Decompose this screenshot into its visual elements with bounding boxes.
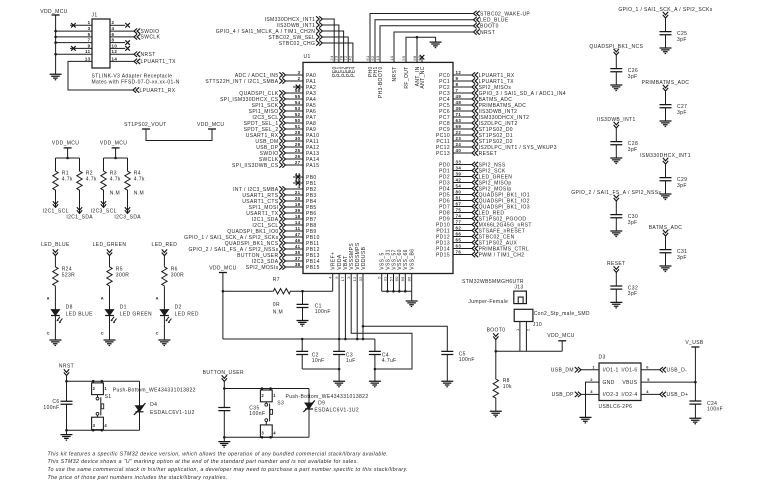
svg-text:3pF: 3pF xyxy=(677,255,687,261)
connector J10 Con2_Stp_male_SMD xyxy=(514,309,533,321)
svg-text:3pF: 3pF xyxy=(628,74,638,80)
resistor R7 0R N.M xyxy=(223,290,272,292)
svg-text:ANT_NC: ANT_NC xyxy=(420,66,426,88)
node LPUART1_RX xyxy=(133,87,139,92)
svg-text:RESET: RESET xyxy=(479,151,498,157)
wire R1 to I2C1_SCL xyxy=(55,191,57,207)
wire VDDSMPS down xyxy=(356,274,358,340)
svg-text:2: 2 xyxy=(298,76,301,81)
junction C4 bottom xyxy=(374,368,377,371)
ground (C32) xyxy=(610,302,622,308)
wire S3 bottom rail xyxy=(224,436,309,438)
capacitor C25 3pF xyxy=(660,32,672,35)
wire VDDUSB down xyxy=(362,274,364,340)
capacitor C6 100nF xyxy=(66,381,68,401)
svg-text:VDD_MCU: VDD_MCU xyxy=(52,140,79,146)
svg-text:J10: J10 xyxy=(533,322,542,328)
wire GPIO_4 / SAI1_MCLK_A / TIM1_CH2N to PE2 xyxy=(322,31,343,62)
svg-text:13: 13 xyxy=(85,56,91,61)
wire R5 to D1 xyxy=(109,287,111,310)
ground (J1 rail) xyxy=(50,74,62,80)
svg-text:NRST: NRST xyxy=(59,364,74,370)
svg-text:36: 36 xyxy=(456,106,462,111)
U1 pins PD0-PD15 xyxy=(436,159,532,258)
svg-text:PWM / TIM1_CH2: PWM / TIM1_CH2 xyxy=(479,252,525,258)
svg-text:1: 1 xyxy=(88,20,91,25)
svg-text:3pF: 3pF xyxy=(677,183,687,189)
node USB_D+ xyxy=(660,392,666,397)
svg-text:VSS_66: VSS_66 xyxy=(403,249,409,270)
junction VBUS xyxy=(694,381,697,384)
svg-text:86: 86 xyxy=(407,276,412,282)
svg-text:0R: 0R xyxy=(273,302,280,308)
capacitor C24 100nF xyxy=(689,401,701,404)
node I2C1_SDA xyxy=(77,207,82,213)
U1 pins PE0-PE4 xyxy=(329,55,357,77)
svg-text:ST1PS02_VOUT: ST1PS02_VOUT xyxy=(124,122,167,128)
node BOOT0 (top right) xyxy=(474,23,480,28)
svg-text:100nF: 100nF xyxy=(707,407,723,413)
ground (D8) xyxy=(49,340,61,346)
svg-text:3pF: 3pF xyxy=(677,110,687,116)
svg-text:7: 7 xyxy=(88,38,91,43)
node STBC02_WAKE-UP (top right) xyxy=(474,11,480,16)
wire J1 pin14 xyxy=(110,60,134,62)
svg-text:2: 2 xyxy=(112,20,115,25)
ground (S1) xyxy=(66,430,68,434)
svg-text:27: 27 xyxy=(295,160,301,165)
svg-text:J1: J1 xyxy=(92,13,98,19)
ground (D3) xyxy=(580,417,592,423)
junction C2 rail xyxy=(301,338,304,341)
svg-text:26: 26 xyxy=(295,154,301,159)
wire BUTTON_USER to rail xyxy=(223,381,225,388)
svg-text:4.7uF: 4.7uF xyxy=(382,358,397,364)
svg-text:100nF: 100nF xyxy=(459,357,475,363)
svg-text:100nF: 100nF xyxy=(43,405,59,411)
svg-text:6: 6 xyxy=(646,365,649,370)
svg-text:1: 1 xyxy=(515,328,520,331)
U1 pins PA0-PA15 xyxy=(205,70,319,169)
svg-text:39: 39 xyxy=(456,171,462,176)
svg-text:BUTTON_USER: BUTTON_USER xyxy=(203,370,244,376)
svg-text:PD15: PD15 xyxy=(436,252,450,258)
ground (S3) xyxy=(223,437,225,441)
svg-text:1: 1 xyxy=(104,386,107,391)
svg-text:GPIO_2 / SAI1_FS_A / SPI2_NSSs: GPIO_2 / SAI1_FS_A / SPI2_NSSs xyxy=(571,190,661,196)
svg-text:N.M: N.M xyxy=(110,190,120,196)
junction C1 xyxy=(301,290,304,293)
wire net tie ST1PS02_VOUT to VDD_MCU xyxy=(146,129,212,141)
svg-text:9: 9 xyxy=(334,276,339,279)
resistor R5 300R xyxy=(107,266,112,287)
wire STBC02_CHG to PE4 xyxy=(322,43,353,62)
ground (C25) xyxy=(660,48,672,54)
wire J1 pin4 xyxy=(110,30,134,32)
svg-text:11: 11 xyxy=(85,49,91,54)
svg-text:47: 47 xyxy=(295,232,301,237)
no-connect X J1 pin8 xyxy=(125,40,130,45)
svg-text:R8: R8 xyxy=(503,378,510,384)
svg-text:Push-Bottom_WE434331013822: Push-Bottom_WE434331013822 xyxy=(286,394,369,400)
svg-text:SPI2_MOSIs: SPI2_MOSIs xyxy=(246,265,279,271)
svg-text:VDD_MCU: VDD_MCU xyxy=(547,333,574,339)
svg-text:6: 6 xyxy=(112,32,115,37)
U1 pins PB0-PB15 xyxy=(184,172,320,271)
resistor R3 4.7k N.M xyxy=(101,170,106,191)
svg-text:I/O2-4: I/O2-4 xyxy=(621,392,637,398)
wire GPIO_1 / SAI1_SCK_A / SPI2_SCKs to C25 xyxy=(665,18,667,32)
svg-text:D1: D1 xyxy=(120,304,127,310)
svg-text:This kit features a specific S: This kit features a specific STM32 devic… xyxy=(48,451,389,457)
junction C3 bottom xyxy=(338,368,341,371)
junction VDDUSB to C5 branch xyxy=(362,325,365,328)
node NRST (J1) xyxy=(134,52,140,57)
svg-text:VREF+: VREF+ xyxy=(331,252,337,270)
svg-text:I2C3_SDA: I2C3_SDA xyxy=(114,214,141,220)
svg-text:SWCLK: SWCLK xyxy=(141,35,161,41)
svg-text:3pF: 3pF xyxy=(677,37,687,43)
junction BOOT0 R8 xyxy=(495,350,498,353)
wire USB_DP to D3 xyxy=(581,393,599,395)
ground (C24) xyxy=(689,418,701,424)
svg-text:Con2_Stp_male_SMD: Con2_Stp_male_SMD xyxy=(534,311,590,317)
capacitor C26 3pF xyxy=(610,69,622,72)
wire J1 pin8 stub xyxy=(110,42,125,44)
svg-text:D2: D2 xyxy=(175,304,182,310)
svg-text:81: 81 xyxy=(456,195,462,200)
svg-text:R5: R5 xyxy=(116,266,123,272)
svg-text:STTS22H_INT / I2C1_SMBA: STTS22H_INT / I2C1_SMBA xyxy=(205,79,278,85)
svg-text:9: 9 xyxy=(456,76,459,81)
footnote text xyxy=(48,451,408,481)
junction J1 pin3 xyxy=(54,30,57,33)
resistor R1 4.7k xyxy=(53,170,58,191)
ground (C27) xyxy=(660,121,672,127)
svg-text:I2C3_SCL: I2C3_SCL xyxy=(91,208,117,214)
svg-text:ISM330DHCX_INT1: ISM330DHCX_INT1 xyxy=(640,153,691,159)
svg-text:21: 21 xyxy=(295,190,301,195)
svg-text:62: 62 xyxy=(456,225,462,230)
svg-text:17: 17 xyxy=(340,276,345,282)
wire S1 top rail xyxy=(67,380,140,382)
wire V_USB down xyxy=(694,347,696,401)
svg-text:N.M: N.M xyxy=(134,190,144,196)
svg-text:S3: S3 xyxy=(277,401,284,407)
J1 pin numbers left xyxy=(85,20,91,61)
junction R7 rail xyxy=(222,290,225,293)
svg-text:PA15: PA15 xyxy=(306,163,319,169)
svg-text:C: C xyxy=(47,330,50,335)
junction VBAT rail xyxy=(344,338,347,341)
wire R6 to D2 xyxy=(163,287,165,310)
LED D8 LED BLUE xyxy=(51,310,60,316)
svg-text:1: 1 xyxy=(592,365,595,370)
ground (C30) xyxy=(610,231,622,237)
svg-text:71: 71 xyxy=(456,112,462,117)
svg-text:300R: 300R xyxy=(116,273,129,279)
node SWDIO xyxy=(134,28,140,33)
capacitor C3 1uF xyxy=(338,339,340,351)
svg-text:3: 3 xyxy=(346,276,351,279)
node SWCLK xyxy=(134,34,140,39)
svg-text:1uF: 1uF xyxy=(346,358,356,364)
ground (C4) xyxy=(369,381,381,387)
svg-text:I/O1-1: I/O1-1 xyxy=(603,368,619,374)
wire VDDA down xyxy=(338,274,340,340)
wire VDD_MCU to rail (J10) xyxy=(561,341,563,352)
ground (R8) xyxy=(490,411,502,417)
svg-text:LED_BLUE: LED_BLUE xyxy=(41,242,70,248)
ground (D1) xyxy=(104,340,116,346)
svg-text:100nF: 100nF xyxy=(249,411,265,417)
wire IIS3DWB_INT1 to PE1 xyxy=(322,25,339,62)
wire D2 to ground xyxy=(163,316,165,341)
svg-text:24: 24 xyxy=(456,142,462,147)
junction VDDA rail xyxy=(338,338,341,341)
no-connect X J1 pin2 xyxy=(125,23,130,28)
wire S1 bottom rail xyxy=(67,429,140,431)
wire D3 GND pin xyxy=(586,382,600,417)
svg-text:2: 2 xyxy=(261,393,264,398)
svg-text:13: 13 xyxy=(375,55,380,61)
svg-text:74: 74 xyxy=(456,213,462,218)
svg-text:10k: 10k xyxy=(503,384,512,390)
wire LED_BLUE (top right) xyxy=(375,20,474,63)
svg-text:54: 54 xyxy=(456,183,462,188)
svg-text:VDDA: VDDA xyxy=(337,254,343,270)
svg-text:I2C1_SCL: I2C1_SCL xyxy=(43,208,69,214)
svg-text:57: 57 xyxy=(388,276,393,282)
U1 pins PH0 PH1 PH3-BOOT0 NRST RF_OUT ANT_IN ANT_NC xyxy=(365,55,426,98)
wire C2 bottom to C3 xyxy=(302,368,339,370)
LED D2 LED RED xyxy=(160,310,169,316)
svg-text:55: 55 xyxy=(295,94,301,99)
ground (D2) xyxy=(158,340,170,346)
svg-text:2: 2 xyxy=(590,377,593,382)
wire J1 pin13 to LPUART1_RX xyxy=(68,61,133,90)
svg-text:46: 46 xyxy=(295,238,301,243)
svg-text:ESDALC6V1-1U2: ESDALC6V1-1U2 xyxy=(314,408,359,414)
wire VBAT down xyxy=(344,274,346,340)
wire RESET to C32 xyxy=(615,272,617,286)
wire D1 to ground xyxy=(109,316,111,341)
svg-text:RF_OUT: RF_OUT xyxy=(404,66,410,88)
svg-text:3: 3 xyxy=(298,70,301,75)
wire USB_DM to D3 xyxy=(581,369,599,371)
svg-text:4: 4 xyxy=(112,26,115,31)
svg-text:LPUART1_RX: LPUART1_RX xyxy=(140,88,176,94)
wire J1 pin3 xyxy=(56,30,92,32)
connector J1 xyxy=(92,19,110,68)
wire VSS pins to ground xyxy=(382,274,412,302)
svg-text:VDD_MCU: VDD_MCU xyxy=(209,266,236,272)
wire VSSSMPS return xyxy=(351,274,412,370)
svg-text:PH3-BOOT0: PH3-BOOT0 xyxy=(378,66,384,98)
svg-text:49: 49 xyxy=(456,94,462,99)
svg-text:63: 63 xyxy=(456,243,462,248)
svg-text:LED GREEN: LED GREEN xyxy=(120,311,152,317)
svg-text:66: 66 xyxy=(400,276,405,282)
svg-text:523R: 523R xyxy=(62,273,75,279)
svg-text:4.7k: 4.7k xyxy=(86,177,97,183)
ground (C29) xyxy=(660,194,672,200)
svg-text:STBC02_CHG: STBC02_CHG xyxy=(279,41,316,47)
svg-text:PE4: PE4 xyxy=(351,66,357,77)
push-button S1 Push-Bottom_WE434331013822 xyxy=(92,380,196,432)
svg-text:USBLC6-2P6: USBLC6-2P6 xyxy=(599,404,633,410)
wire STBC02_SW_SEL to PE3 xyxy=(322,37,348,62)
svg-text:32: 32 xyxy=(358,276,363,282)
svg-text:VSS_B6: VSS_B6 xyxy=(410,249,416,270)
wire D8 to ground xyxy=(54,316,56,341)
wire J1 pin12 xyxy=(110,53,134,55)
svg-text:NRST: NRST xyxy=(392,66,398,81)
wire VDD_MCU down xyxy=(222,273,224,340)
wire R2 to I2C1_SDA xyxy=(79,191,81,213)
svg-text:R6: R6 xyxy=(171,266,178,272)
junction NRST rail xyxy=(65,380,68,383)
node I2C3_SDA xyxy=(125,207,130,213)
svg-text:19: 19 xyxy=(295,202,301,207)
svg-text:C: C xyxy=(101,330,104,335)
wire J1 pin5 xyxy=(56,36,92,38)
svg-text:QUADSPI_BK1_NCS: QUADSPI_BK1_NCS xyxy=(589,44,643,50)
J1 pin numbers right xyxy=(112,20,118,61)
node I2C1_SCL xyxy=(53,201,58,207)
svg-text:40: 40 xyxy=(456,148,462,153)
svg-text:42: 42 xyxy=(456,177,462,182)
ground (C28) xyxy=(610,158,622,164)
wire PRIMBATMS_ADC to C27 xyxy=(665,91,667,105)
U1 pins PC0-PC13 xyxy=(436,70,566,157)
resistor R2 4.7k xyxy=(77,170,82,191)
svg-text:R24: R24 xyxy=(62,266,72,272)
svg-text:75: 75 xyxy=(456,207,462,212)
ground (C1) xyxy=(297,321,309,327)
svg-text:3pF: 3pF xyxy=(628,291,638,297)
wire S3 top rail xyxy=(224,388,309,390)
svg-text:37: 37 xyxy=(295,256,301,261)
wire IIS3DWB_INT1 to C28 xyxy=(615,128,617,142)
svg-text:R3: R3 xyxy=(110,170,117,176)
no-connect X J1 pin9 xyxy=(71,46,76,51)
svg-text:4.7k: 4.7k xyxy=(134,177,145,183)
junction J1 pin11 xyxy=(54,53,57,56)
svg-text:D3: D3 xyxy=(599,354,606,360)
node USB_D- xyxy=(660,367,666,372)
junction ANT_IN xyxy=(416,36,419,39)
svg-text:4: 4 xyxy=(298,184,301,189)
svg-text:3: 3 xyxy=(88,26,91,31)
svg-text:BATMS_ADC: BATMS_ADC xyxy=(649,225,683,231)
svg-text:R4: R4 xyxy=(134,170,141,176)
ground (C5) xyxy=(441,381,453,387)
svg-text:12: 12 xyxy=(456,70,462,75)
svg-text:R1: R1 xyxy=(62,170,69,176)
svg-text:8: 8 xyxy=(456,82,459,87)
wire ISM330DHCX_INT1 to C29 xyxy=(665,164,667,178)
wire VDD rail bottom xyxy=(223,338,375,340)
capacitor C35 100nF xyxy=(223,389,225,408)
svg-text:Mates with FFSD-07-D-xx.xx-01-: Mates with FFSD-07-D-xx.xx-01-N xyxy=(92,79,180,85)
svg-text:45: 45 xyxy=(295,178,301,183)
svg-text:IIS3DWB_INT1: IIS3DWB_INT1 xyxy=(597,117,636,123)
svg-text:38: 38 xyxy=(295,262,301,267)
ESD diode D9 ESDALC6V1-1U2 xyxy=(308,389,310,403)
junction VDDSMPS rail xyxy=(356,338,359,341)
svg-text:A: A xyxy=(156,295,159,300)
U1 bottom pins VSS xyxy=(377,249,416,282)
svg-text:66: 66 xyxy=(456,231,462,236)
svg-text:300R: 300R xyxy=(171,273,184,279)
wire VDDUSB to C5 xyxy=(363,326,447,351)
svg-text:VDD_MCU: VDD_MCU xyxy=(40,9,67,15)
wire LED_RED to R6 xyxy=(163,256,165,266)
svg-text:10: 10 xyxy=(389,55,394,61)
svg-text:PC13: PC13 xyxy=(436,151,450,157)
svg-text:20: 20 xyxy=(295,196,301,201)
svg-text:41: 41 xyxy=(295,244,301,249)
ground (C26) xyxy=(610,85,622,91)
wire R1 R2 split xyxy=(67,148,69,158)
ground (VSS) xyxy=(406,301,418,307)
svg-text:1: 1 xyxy=(273,393,276,398)
svg-text:A: A xyxy=(101,295,104,300)
capacitor C4 4.7uF xyxy=(374,339,376,351)
capacitor C32 3pF xyxy=(610,286,622,289)
svg-text:3pF: 3pF xyxy=(628,220,638,226)
svg-text:VBUS: VBUS xyxy=(622,380,637,386)
svg-text:GND: GND xyxy=(603,380,615,386)
svg-text:34: 34 xyxy=(456,165,462,170)
junction VDDUSB rail xyxy=(362,338,365,341)
svg-text:7: 7 xyxy=(456,88,459,93)
capacitor C1 100nF xyxy=(302,291,304,304)
junction J1 pin5 xyxy=(54,36,57,39)
svg-text:LED BLUE: LED BLUE xyxy=(66,311,94,317)
svg-text:U1: U1 xyxy=(304,54,311,60)
capacitor C5 100nF xyxy=(441,351,453,354)
wire D3 pin4 xyxy=(641,393,660,395)
svg-text:54: 54 xyxy=(295,100,301,105)
resistor R24 523R xyxy=(53,266,58,287)
wire ISM330DHCX_INT1 to PE0 xyxy=(322,19,334,62)
svg-text:3: 3 xyxy=(93,423,96,428)
svg-text:N.M: N.M xyxy=(273,310,283,316)
svg-text:12: 12 xyxy=(112,49,118,54)
junction R1R2 split xyxy=(66,157,69,160)
svg-text:S1: S1 xyxy=(105,394,112,400)
no-connect X J1 pin10 xyxy=(125,46,130,51)
svg-text:18: 18 xyxy=(295,214,301,219)
svg-text:65: 65 xyxy=(456,237,462,242)
svg-text:4: 4 xyxy=(273,431,276,436)
svg-text:77: 77 xyxy=(456,219,462,224)
svg-text:31: 31 xyxy=(382,276,387,282)
svg-text:100nF: 100nF xyxy=(315,309,331,315)
svg-text:USB_DP: USB_DP xyxy=(552,392,575,398)
wire J10 pin1 xyxy=(519,322,521,352)
svg-text:22: 22 xyxy=(456,130,462,135)
wire J1 pin6 xyxy=(110,36,134,38)
svg-text:VDDUSB: VDDUSB xyxy=(361,246,367,269)
svg-text:5: 5 xyxy=(377,276,382,279)
svg-text:A: A xyxy=(47,295,50,300)
ground (C3) xyxy=(333,381,345,387)
svg-text:LED_GREEN: LED_GREEN xyxy=(93,242,127,248)
junction R3R4 split xyxy=(114,157,117,160)
